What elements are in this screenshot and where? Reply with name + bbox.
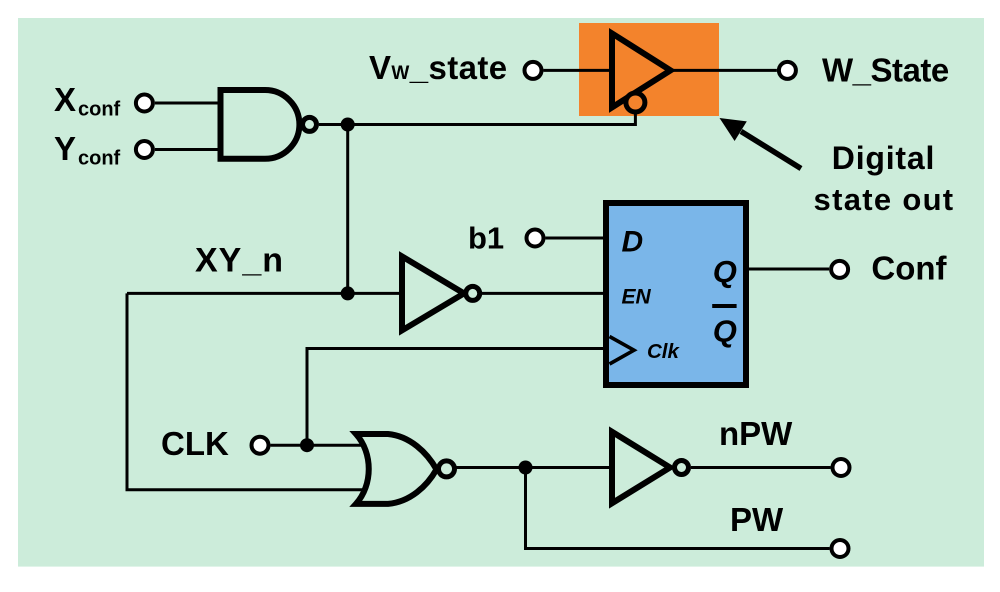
svg-text:Digital: Digital (832, 140, 935, 176)
svg-text:nPW: nPW (719, 415, 793, 452)
svg-text:state out: state out (814, 182, 955, 217)
svg-text:D: D (622, 226, 644, 259)
svg-text:Y: Y (54, 130, 76, 167)
svg-text:Q: Q (713, 254, 737, 289)
svg-text:conf: conf (78, 148, 121, 170)
svg-text:b1: b1 (468, 221, 504, 256)
svg-text:PW: PW (730, 501, 784, 538)
svg-text:conf: conf (78, 99, 121, 121)
svg-text:Clk: Clk (647, 340, 681, 363)
svg-text:CLK: CLK (161, 425, 229, 462)
svg-text:Conf: Conf (871, 250, 947, 287)
svg-text:W_State: W_State (822, 52, 949, 89)
svg-text:Q: Q (713, 314, 737, 349)
svg-text:XY_n: XY_n (195, 242, 284, 280)
svg-text:VW_state: VW_state (369, 49, 508, 86)
svg-text:EN: EN (622, 286, 652, 309)
svg-text:X: X (54, 81, 76, 118)
